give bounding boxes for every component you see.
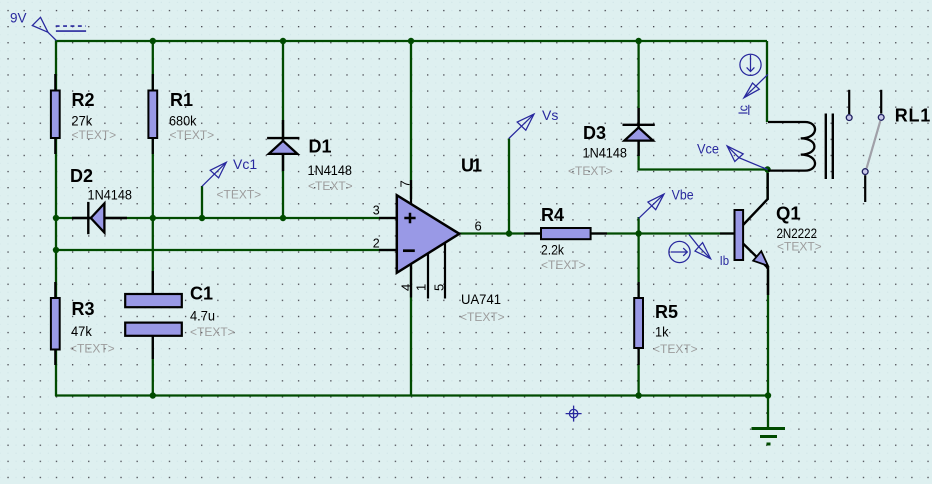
probe Vce: [727, 146, 767, 170]
junction output / Vs: [506, 230, 512, 236]
junction left rail / inverting row: [53, 247, 59, 253]
wire collector stub: [766, 170, 768, 201]
probe Vbe: [639, 194, 664, 218]
wire ground stub: [767, 396, 769, 429]
wire bottom ground rail: [55, 394, 768, 396]
svg-text:RL1: RL1: [895, 105, 931, 125]
wire R1 branch upper: [152, 41, 154, 294]
svg-text:<TEXT>: <TEXT>: [190, 325, 235, 339]
capacitor C1: [125, 271, 182, 359]
wire R5 branch: [637, 234, 639, 396]
wire noninverting input row: [56, 217, 397, 219]
wire left rail: [55, 40, 57, 396]
relay RL1 core: [826, 114, 833, 180]
junction collector node: [764, 166, 770, 172]
probe Vc1: [202, 162, 226, 186]
wire C1 branch lower: [152, 336, 154, 396]
svg-text:9V: 9V: [10, 10, 27, 25]
svg-text:3: 3: [373, 204, 380, 218]
relay RL1 coil: [768, 122, 815, 171]
svg-text:7: 7: [398, 180, 413, 187]
resistor R4: [524, 228, 607, 239]
svg-text:6: 6: [475, 219, 482, 234]
junction bottom rail / C1: [150, 392, 156, 398]
probe Vs: [509, 114, 534, 138]
svg-text:UA741: UA741: [461, 291, 501, 307]
resistor R1: [148, 74, 157, 154]
relay RL1 contact stems: [849, 90, 881, 202]
junction left rail / D2 row: [53, 215, 59, 221]
svg-text:D3: D3: [583, 123, 606, 143]
svg-text:R2: R2: [72, 90, 95, 110]
svg-text:1N4148: 1N4148: [308, 162, 353, 178]
resistor R2: [51, 74, 60, 154]
svg-text:R5: R5: [655, 302, 678, 322]
wire emitter stub: [767, 270, 769, 396]
junction top rail / R1: [150, 38, 156, 44]
wire Vs probe stub: [508, 139, 510, 234]
junction bottom rail / emitter-ground: [765, 392, 771, 398]
svg-text:<TEXT>: <TEXT>: [72, 128, 117, 142]
diode D2: [72, 202, 127, 234]
svg-text:2.2k: 2.2k: [541, 242, 565, 258]
wire D3 branch to collector node: [639, 41, 767, 170]
svg-text:2: 2: [373, 236, 380, 250]
svg-text:680k: 680k: [169, 113, 197, 129]
wire inverting input row: [56, 249, 397, 251]
svg-text:Vbe: Vbe: [672, 186, 694, 202]
wire opamp pin4 branch: [410, 265, 412, 396]
svg-text:Q1: Q1: [776, 203, 801, 224]
svg-text:<TEXT>: <TEXT>: [308, 179, 353, 193]
svg-text:Ic: Ic: [736, 105, 750, 115]
ground: [752, 429, 786, 445]
current probe Ib: [669, 235, 711, 263]
junction bottom rail / R5: [635, 392, 641, 398]
origin marker: [566, 406, 582, 422]
wire Vc1 probe stub: [201, 186, 203, 218]
svg-text:5: 5: [431, 284, 446, 291]
wire Ic branch to relay coil: [766, 41, 768, 122]
svg-text:1N4148: 1N4148: [583, 145, 628, 161]
resistor R5: [634, 282, 643, 365]
svg-text:<TEXT>: <TEXT>: [568, 164, 613, 178]
svg-text:<TEXT>: <TEXT>: [777, 240, 822, 254]
current probe Ic: [740, 54, 768, 97]
svg-text:U1: U1: [461, 155, 482, 175]
label Ic: [736, 105, 750, 115]
svg-text:27k: 27k: [71, 113, 93, 129]
svg-text:<TEXT>: <TEXT>: [653, 342, 698, 356]
svg-text:4.7u: 4.7u: [190, 307, 215, 323]
wire opamp pin7 branch: [410, 41, 412, 199]
junction D1 / D2 row: [280, 215, 286, 221]
op-amp U1: [379, 180, 459, 299]
transistor Q1: [720, 173, 768, 295]
junction Vc1 probe node: [199, 215, 205, 221]
wire D1 branch: [282, 41, 284, 218]
wire top supply rail: [56, 40, 767, 42]
svg-text:1N4148: 1N4148: [88, 187, 133, 203]
svg-text:R3: R3: [72, 299, 95, 319]
svg-text:4: 4: [398, 284, 413, 291]
svg-text:Vs: Vs: [542, 107, 558, 123]
svg-text:Ib: Ib: [720, 253, 730, 268]
wire output row: [459, 232, 736, 234]
relay RL1 contact pivots: [846, 115, 884, 175]
svg-text:1k: 1k: [655, 324, 669, 340]
svg-text:C1: C1: [190, 284, 213, 304]
diode D3: [623, 108, 655, 156]
svg-text:R4: R4: [541, 205, 564, 225]
svg-text:<TEXT>: <TEXT>: [541, 258, 586, 272]
junction top rail / D1: [280, 38, 286, 44]
svg-text:D2: D2: [70, 166, 93, 186]
svg-text:<TEXT>: <TEXT>: [217, 188, 262, 202]
resistor R3: [51, 282, 60, 365]
junction top rail / D3: [635, 38, 641, 44]
wire Vbe probe stub: [637, 217, 639, 234]
svg-text:Vc1: Vc1: [233, 156, 257, 172]
svg-text:<TEXT>: <TEXT>: [70, 342, 115, 356]
junction R1-C1 / D2 row: [150, 215, 156, 221]
junction base row / R5: [635, 230, 641, 236]
diode D1: [267, 120, 299, 171]
svg-text:1: 1: [414, 284, 429, 291]
svg-text:<TEXT>: <TEXT>: [170, 128, 215, 142]
battery V1 9V symbol: [32, 17, 86, 40]
junction top rail / pin7: [408, 38, 414, 44]
svg-text:Vce: Vce: [697, 140, 719, 156]
relay RL1 moving contact arm: [867, 121, 881, 168]
svg-text:<TEXT>: <TEXT>: [460, 310, 505, 324]
svg-text:D1: D1: [309, 137, 332, 157]
svg-text:47k: 47k: [71, 323, 93, 339]
svg-text:R1: R1: [170, 90, 193, 110]
